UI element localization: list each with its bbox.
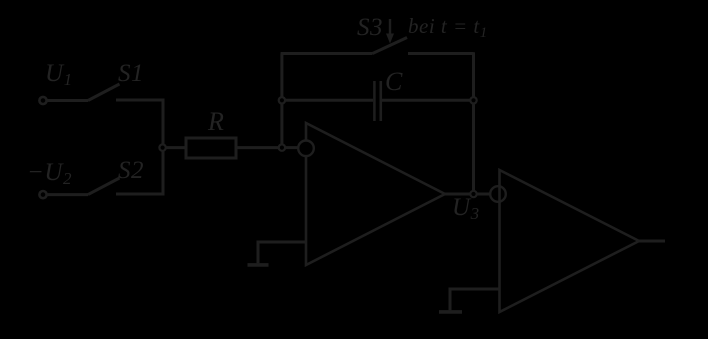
node output bbox=[470, 191, 476, 197]
wire amp2 output bbox=[639, 240, 665, 243]
wire cap row left bbox=[282, 99, 373, 102]
switch S3 blade bbox=[373, 38, 408, 54]
wire top rail right bbox=[408, 52, 474, 55]
wire non-inverting input amp1 bbox=[258, 242, 306, 263]
node cap left bbox=[279, 97, 285, 103]
wire left feedback vertical bbox=[280, 54, 283, 145]
wire right feedback vertical bbox=[472, 52, 475, 194]
svg-text:S3: S3 bbox=[357, 14, 383, 41]
wire S2 contact to junction bbox=[116, 149, 163, 194]
wire summing node to op-amp bubble bbox=[285, 146, 298, 149]
switch S1 blade bbox=[88, 84, 120, 101]
op-amp U1 triangle bbox=[306, 123, 445, 265]
resistor R body bbox=[186, 138, 236, 158]
svg-text:−U2: −U2 bbox=[27, 159, 72, 188]
wire node to resistor bbox=[166, 146, 186, 149]
node cap right bbox=[470, 97, 476, 103]
ground amp2 bbox=[439, 310, 462, 314]
svg-text:U3: U3 bbox=[452, 194, 480, 223]
wire cap row right bbox=[382, 99, 474, 102]
svg-text:U1: U1 bbox=[45, 60, 73, 89]
wire amp1 output bbox=[445, 193, 491, 196]
node summing point bbox=[279, 144, 285, 150]
op-amp U2 triangle bbox=[500, 170, 640, 312]
svg-text:bei t = t1: bei t = t1 bbox=[408, 14, 488, 41]
wire top rail left bbox=[281, 52, 373, 55]
wire non-inverting input amp2 bbox=[450, 289, 500, 310]
svg-text:C: C bbox=[385, 67, 403, 96]
svg-text:S1: S1 bbox=[118, 60, 144, 87]
wire S1 contact to junction bbox=[116, 100, 163, 146]
op-amp U2 inverting bubble bbox=[490, 186, 506, 202]
svg-text:S2: S2 bbox=[118, 157, 144, 184]
terminal -U2 input circle bbox=[39, 191, 46, 198]
node junction of S1/S2 bbox=[159, 144, 165, 150]
op-amp U1 inverting bubble bbox=[298, 141, 314, 157]
wire -U2 terminal to S2 hinge bbox=[47, 193, 88, 196]
wire U1 terminal to S1 hinge bbox=[47, 99, 88, 102]
capacitor C plates bbox=[373, 81, 376, 121]
svg-text:R: R bbox=[207, 107, 224, 136]
arrow S3 actuation bbox=[389, 19, 391, 35]
switch S2 blade bbox=[88, 178, 120, 195]
ground amp1 bbox=[248, 263, 269, 267]
terminal U1 input circle bbox=[39, 97, 46, 104]
wire resistor to summing node bbox=[236, 146, 278, 149]
